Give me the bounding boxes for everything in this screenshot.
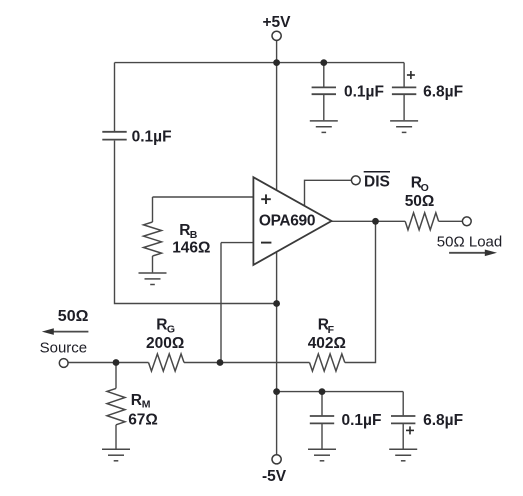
svg-text:G: G — [167, 324, 175, 336]
svg-text:DIS: DIS — [364, 173, 390, 190]
svg-text:50Ω: 50Ω — [405, 193, 435, 210]
svg-text:0.1µF: 0.1µF — [342, 412, 382, 429]
svg-text:0.1µF: 0.1µF — [344, 84, 384, 101]
svg-text:200Ω: 200Ω — [146, 335, 184, 352]
svg-text:50Ω: 50Ω — [58, 308, 89, 325]
svg-text:OPA690: OPA690 — [259, 212, 315, 229]
svg-text:67Ω: 67Ω — [128, 411, 158, 428]
svg-text:146Ω: 146Ω — [172, 239, 210, 256]
svg-text:402Ω: 402Ω — [308, 335, 346, 352]
svg-text:F: F — [328, 324, 335, 336]
svg-text:50Ω Load: 50Ω Load — [437, 233, 502, 250]
svg-text:-5V: -5V — [262, 468, 287, 485]
svg-text:0.1µF: 0.1µF — [132, 129, 172, 146]
svg-text:+5V: +5V — [263, 14, 292, 31]
svg-text:6.8µF: 6.8µF — [423, 412, 463, 429]
svg-text:R: R — [179, 222, 190, 239]
svg-text:R: R — [156, 317, 167, 334]
svg-text:6.8µF: 6.8µF — [423, 84, 463, 101]
svg-text:Source: Source — [40, 340, 88, 357]
svg-text:R: R — [131, 392, 142, 409]
svg-text:M: M — [142, 398, 151, 410]
